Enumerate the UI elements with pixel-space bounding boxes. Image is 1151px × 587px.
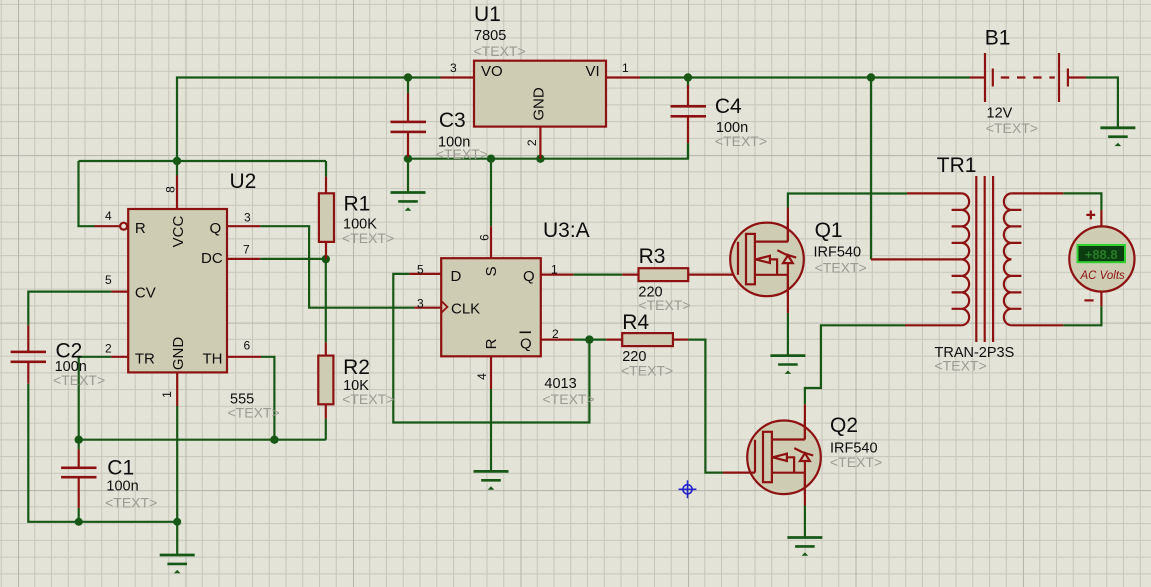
svg-text:R: R [135, 220, 146, 237]
svg-text:6: 6 [244, 339, 251, 353]
wire TR pin to C1 column [79, 357, 112, 440]
svg-text:5: 5 [105, 273, 112, 287]
svg-text:IRF540: IRF540 [814, 245, 862, 261]
svg-text:AC Volts: AC Volts [1080, 270, 1126, 282]
label B1 [985, 27, 1038, 137]
capacitor C1 [61, 449, 96, 508]
svg-text:+88.8: +88.8 [1085, 247, 1118, 262]
svg-text:7: 7 [243, 243, 250, 257]
svg-text:<TEXT>: <TEXT> [342, 230, 394, 246]
label C4 [715, 95, 767, 149]
primary winding [962, 193, 970, 325]
svg-text:<TEXT>: <TEXT> [621, 363, 673, 379]
node junction at TR1 feed [867, 73, 875, 81]
pin 5 CV [111, 291, 128, 293]
wire C4 bottom stub [687, 143, 689, 159]
wire battery right to ground [1086, 78, 1118, 128]
svg-text:CV: CV [135, 285, 156, 302]
svg-text:<TEXT>: <TEXT> [228, 405, 280, 421]
pin 2 GND [539, 127, 541, 159]
pin 8 VCC [176, 176, 178, 210]
resistor R4 [606, 333, 688, 346]
pin 2 Qbar [541, 339, 574, 341]
ground below U3 [474, 471, 509, 489]
svg-text:4013: 4013 [544, 376, 576, 392]
pin secondary bottom [1011, 324, 1063, 326]
pin 1 GND [176, 372, 178, 406]
secondary winding [1004, 193, 1012, 325]
timer U2 555 [95, 176, 262, 407]
wire C3 bottom stub [407, 157, 409, 159]
svg-text:4: 4 [105, 209, 112, 223]
ground bottom left [160, 555, 195, 573]
pin 2 TR [111, 356, 128, 358]
svg-text:1: 1 [622, 61, 629, 75]
wire Q2 source to ground [804, 506, 806, 538]
svg-text:R4: R4 [622, 311, 649, 334]
ground right of battery [1100, 128, 1135, 146]
svg-text:R3: R3 [639, 245, 666, 268]
node junction U1 gnd pin [536, 155, 544, 163]
pin 3 CLK [414, 307, 441, 309]
wire U1 VI to battery [640, 76, 970, 78]
svg-text:GND: GND [531, 87, 548, 121]
node junction at C4 [684, 73, 692, 81]
svg-text:4: 4 [475, 373, 489, 380]
pin 4 R [490, 356, 492, 389]
wire Qbar feedback to D [393, 274, 589, 423]
svg-text:C1: C1 [107, 457, 134, 480]
svg-text:Q: Q [210, 220, 222, 237]
svg-text:U1: U1 [474, 3, 501, 26]
wire CV to C2 [28, 292, 111, 326]
svg-text:GND: GND [170, 337, 187, 371]
origin marker [679, 480, 697, 498]
label C2 [53, 340, 105, 389]
label R2 [342, 356, 394, 407]
label U1 [450, 3, 629, 146]
svg-text:B1: B1 [985, 27, 1011, 50]
pin secondary top [1011, 192, 1063, 194]
svg-text:7805: 7805 [474, 28, 506, 44]
node junction VCC U2 [173, 157, 181, 165]
wire battery node to TR1 center tap [870, 78, 872, 260]
label R4 [621, 311, 673, 379]
svg-text:C4: C4 [715, 95, 742, 118]
wire R1 top [325, 161, 327, 177]
svg-text:3: 3 [244, 211, 251, 225]
svg-text:C3: C3 [439, 109, 466, 132]
label TR1 [935, 154, 1015, 374]
ground below Q1 [770, 356, 805, 374]
wire gnd rail y158.7 [408, 143, 688, 159]
wire ground stem bottom left [176, 522, 178, 555]
wire C1 top stub [78, 440, 80, 450]
wire Qbar to R4 [573, 339, 606, 341]
svg-text:D: D [451, 268, 462, 285]
pin 1 VI [606, 76, 640, 78]
svg-text:R1: R1 [344, 193, 371, 216]
node junction R1 R2 DC [322, 255, 330, 263]
wire bottom rail y439.7 [79, 439, 326, 441]
svg-text:2: 2 [525, 139, 539, 146]
wire R4 to Q2 gate [688, 340, 723, 473]
svg-text:Q: Q [520, 336, 532, 353]
node junction TH rail [270, 436, 278, 444]
svg-text:TH: TH [203, 351, 223, 368]
svg-text:TR1: TR1 [937, 154, 977, 177]
svg-text:<TEXT>: <TEXT> [53, 372, 105, 388]
label R3 [638, 245, 690, 313]
flip-flop U3:A 4013 [409, 226, 573, 389]
svg-text:6: 6 [478, 234, 492, 241]
wire TR1 bottom lead to Q2 drain [805, 325, 905, 404]
svg-text:S: S [483, 266, 500, 276]
svg-text:<TEXT>: <TEXT> [105, 495, 157, 511]
battery B1 12V [970, 53, 1087, 102]
wire R2 bottom [325, 419, 327, 440]
regulator U1 7805 [441, 61, 641, 159]
pin 1 Q [541, 274, 574, 276]
node junction C3 bottom [404, 155, 412, 163]
node junction C1 bottom [75, 518, 83, 526]
node junction 12V at C3 [404, 73, 412, 81]
label U3:A [417, 219, 595, 407]
wire rail y161 [79, 160, 327, 162]
label U2 [105, 170, 280, 421]
resistor R1 [319, 177, 334, 260]
wire C1 bottom stub [78, 508, 80, 522]
svg-text:R: R [483, 338, 500, 349]
svg-text:<TEXT>: <TEXT> [830, 454, 882, 470]
wire 555 output to CLK [260, 226, 414, 308]
svg-text:R2: R2 [343, 356, 370, 379]
wire C4 top stub [687, 78, 689, 89]
transistor Q2 IRF540 [723, 404, 821, 505]
node junction Qbar [585, 335, 593, 343]
svg-text:<TEXT>: <TEXT> [543, 391, 595, 407]
ground below C3 [391, 193, 426, 211]
pin 6 TH [227, 356, 261, 358]
wire U2 pin8 stub [176, 161, 178, 176]
svg-text:2: 2 [552, 327, 559, 341]
wire DC to R1/R2 node [260, 258, 326, 260]
capacitor C2 [11, 325, 46, 383]
clk triangle [441, 301, 447, 313]
wire U2 reset loop [79, 161, 95, 226]
transistor Q1 IRF540 [730, 208, 804, 313]
pin 3 Q [227, 225, 260, 227]
transformer TR1 TRAN-2P3S [871, 176, 1063, 342]
svg-text:<TEXT>: <TEXT> [986, 120, 1038, 136]
svg-text:<TEXT>: <TEXT> [436, 146, 488, 162]
svg-text:U2: U2 [230, 170, 257, 193]
ground below Q2 [787, 538, 822, 556]
svg-text:5: 5 [417, 263, 424, 277]
wire C3 ground stub [407, 159, 409, 192]
svg-text:1: 1 [551, 263, 558, 277]
svg-text:100n: 100n [106, 479, 138, 495]
svg-text:<TEXT>: <TEXT> [474, 43, 526, 59]
pin 4 R with bubble [95, 225, 121, 227]
wire TR1 secondary top to voltmeter [1063, 193, 1101, 210]
svg-text:CLK: CLK [451, 301, 480, 318]
resistor R2 [318, 342, 333, 418]
svg-text:<TEXT>: <TEXT> [342, 391, 394, 407]
pin 7 DC [227, 258, 260, 260]
capacitor C4 [671, 85, 707, 143]
resistor R3 [622, 268, 738, 281]
pin primary center tap [871, 258, 962, 260]
wire U3 S column [490, 159, 492, 227]
capacitor C3 [391, 93, 427, 157]
wire Q1 source to ground [787, 313, 789, 355]
svg-text:<TEXT>: <TEXT> [815, 260, 867, 276]
svg-text:3: 3 [450, 61, 457, 75]
svg-text:8: 8 [164, 186, 178, 193]
label Q1 [814, 219, 867, 276]
pin primary top [907, 192, 962, 194]
node junction U3 S column [487, 155, 495, 163]
svg-text:VO: VO [481, 63, 503, 80]
svg-text:Q1: Q1 [815, 219, 843, 242]
wire TR1 top lead to Q1 drain [788, 194, 907, 208]
wire U3 R pin to ground [490, 389, 492, 471]
node junction ground stem [173, 518, 181, 526]
svg-text:<TEXT>: <TEXT> [715, 133, 767, 149]
svg-text:VCC: VCC [170, 215, 187, 247]
node junction C1 top [75, 436, 83, 444]
svg-text:Q: Q [523, 268, 535, 285]
voltmeter AC Volts [1069, 210, 1134, 306]
wire Q1 row green [573, 274, 622, 276]
svg-text:U3:A: U3:A [543, 219, 590, 242]
pin 6 S [490, 226, 492, 258]
svg-text:VI: VI [586, 63, 600, 80]
svg-text:<TEXT>: <TEXT> [935, 358, 987, 374]
label C1 [105, 457, 157, 511]
wire U2 gnd column [176, 406, 178, 522]
pin 3 VO [441, 76, 475, 78]
svg-text:DC: DC [201, 250, 223, 267]
wire C2 bottom to ground rail [28, 384, 177, 522]
wire C3 top stub [407, 78, 409, 93]
wire TH column [261, 357, 274, 440]
wire R1R2 node down [325, 259, 327, 342]
pin 5 D [409, 273, 441, 275]
core [976, 176, 993, 342]
wire TR1 secondary bottom to voltmeter [1063, 306, 1101, 325]
label C3 [436, 109, 488, 162]
label Q2 [830, 414, 882, 470]
svg-text:Q2: Q2 [830, 414, 858, 437]
svg-text:TR: TR [135, 351, 155, 368]
label R1 [342, 193, 394, 247]
wire VCC rail left to U1 VO [177, 78, 441, 162]
svg-text:1: 1 [160, 391, 174, 398]
svg-text:3: 3 [417, 297, 424, 311]
svg-text:2: 2 [105, 342, 112, 356]
pin primary bottom [905, 324, 962, 326]
